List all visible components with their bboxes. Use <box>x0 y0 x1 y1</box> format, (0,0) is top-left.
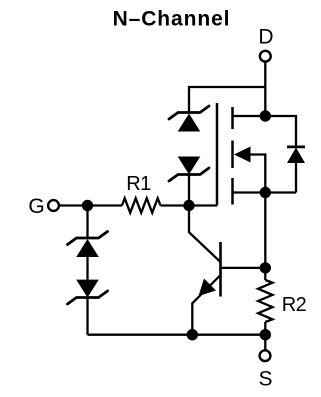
svg-text:R2: R2 <box>282 294 307 316</box>
svg-text:D: D <box>258 26 273 49</box>
svg-text:R1: R1 <box>126 173 151 195</box>
svg-text:G: G <box>28 195 44 218</box>
svg-text:N–Channel: N–Channel <box>113 8 231 31</box>
svg-text:S: S <box>258 368 272 391</box>
